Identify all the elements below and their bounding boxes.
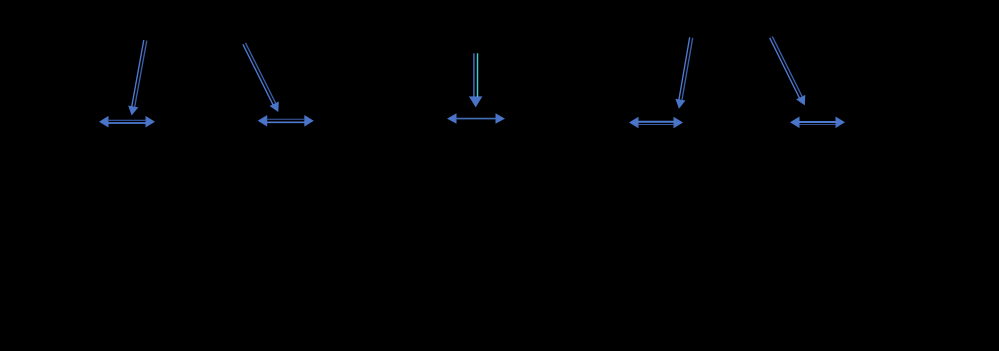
leader arrow 4 xyxy=(675,37,692,108)
leader arrow 3 (vertical) xyxy=(469,53,483,107)
double-headed arrow span 5 xyxy=(790,117,845,129)
double-headed arrow span 2 xyxy=(258,115,314,127)
double-headed arrow span 3 xyxy=(447,113,505,124)
leader arrow 5 xyxy=(770,36,806,105)
double-headed arrow span 1 xyxy=(99,116,155,128)
double-headed arrow span 4 xyxy=(629,117,683,129)
leader arrow 1 xyxy=(128,40,147,116)
leader arrow 2 xyxy=(243,43,279,112)
